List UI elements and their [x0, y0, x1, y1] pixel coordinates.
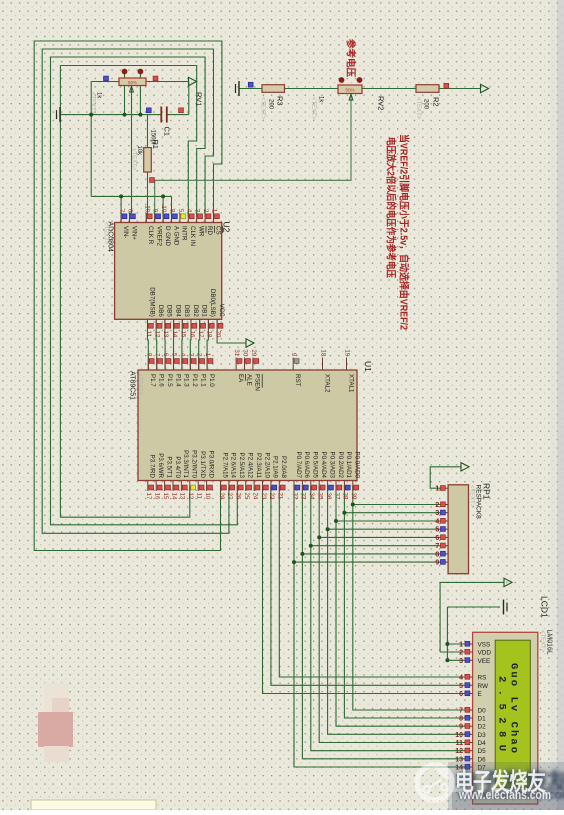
svg-text:50%: 50% [345, 88, 354, 93]
svg-text:P3.3/INT1: P3.3/INT1 [182, 450, 189, 478]
RP1 pin 6 [441, 536, 448, 538]
U1 pin 31 EA [235, 358, 237, 371]
svg-text:<TEXT>: <TEXT> [131, 148, 137, 171]
svg-text:4: 4 [435, 519, 439, 526]
svg-text:U1: U1 [363, 361, 373, 372]
IC U2 ADC0804 body [115, 223, 222, 320]
pink watermark blob bottom-left [38, 683, 73, 762]
svg-text:<TEXT>: <TEXT> [103, 222, 109, 245]
svg-text:D4: D4 [478, 740, 487, 747]
wire branch U1.32-RP1.9 [294, 561, 441, 563]
RP1 pin 1 [441, 487, 448, 489]
resistor R3 [262, 85, 285, 93]
U2 pin 17 DB1 [199, 319, 201, 329]
resistor R1 [144, 148, 152, 172]
svg-text:D1: D1 [478, 716, 487, 723]
U1 pin 5 P1.4 [173, 358, 175, 371]
svg-text:R3: R3 [276, 96, 285, 106]
wire to VIN- [120, 196, 122, 222]
U1 pin 7 P1.6 [156, 358, 158, 371]
U2 pin 20 VCC [216, 319, 218, 329]
LCD pin 8 D1 [464, 717, 473, 719]
svg-text:7: 7 [435, 543, 439, 550]
wire branch U1.38-RP1.3 [344, 512, 441, 514]
LCD pin 14 D7 [464, 766, 473, 768]
svg-text:www.elecfans.com: www.elecfans.com [458, 787, 551, 802]
wire U2.14-U1.5 [173, 319, 175, 370]
U1 pin 13 P3.3/INT1 [180, 481, 182, 492]
svg-text:5: 5 [459, 683, 463, 690]
wire RV1 left drop [90, 82, 92, 197]
svg-text:RV2: RV2 [377, 96, 386, 110]
svg-text:9: 9 [152, 209, 159, 213]
svg-text:DB0(LSB): DB0(LSB) [209, 289, 216, 317]
svg-text:36: 36 [325, 493, 332, 500]
U1 pin 27 P2.6/A14 [228, 481, 230, 492]
LCD pin 6 E [464, 693, 473, 695]
LCD pin 2 VDD [464, 651, 473, 653]
svg-text:200: 200 [423, 99, 429, 110]
U1 pin 39 P0.0/AD0 [352, 481, 354, 492]
svg-text:P3.0/RXD: P3.0/RXD [207, 450, 214, 478]
wire VDD riser [439, 582, 441, 652]
resistor pack RP1 RESPACK8 body [448, 485, 468, 574]
U1 pin 11 P3.1/TXD [197, 481, 199, 492]
svg-text:RD: RD [206, 226, 213, 235]
wire LCD VEE [447, 659, 463, 661]
svg-text:50%: 50% [128, 80, 137, 85]
svg-text:14: 14 [171, 331, 178, 338]
U2 pin 9 VREF2 [154, 213, 156, 223]
svg-text:WR: WR [198, 226, 205, 237]
wire data U1.35-LCD.11 [319, 486, 463, 743]
svg-text:16: 16 [154, 493, 161, 500]
svg-text:E: E [478, 691, 482, 698]
U1 pin 15 P3.5/T1 [164, 481, 166, 492]
svg-text:P0.5/AD5: P0.5/AD5 [312, 452, 319, 479]
svg-text:RST: RST [294, 374, 301, 387]
svg-text:RW: RW [478, 683, 489, 690]
U2 pin 12 DB6 [155, 319, 157, 329]
resistor R2 [416, 85, 439, 93]
node rail1-j3 [138, 113, 142, 117]
wire RV2 to R2 [362, 88, 416, 90]
ground GND3 [503, 600, 505, 615]
RP1 pin 7 [441, 545, 448, 547]
U1 pin 18 XTAL2 [322, 358, 324, 371]
svg-text:<TEXT>: <TEXT> [137, 373, 143, 396]
wire U2.17-U1.2 [199, 319, 200, 370]
RV1 wiper arrowhead [130, 86, 134, 92]
U2 pin 4 CLK IN [187, 213, 189, 223]
svg-text:8: 8 [435, 551, 439, 558]
svg-text:19: 19 [143, 205, 150, 212]
svg-text:2: 2 [202, 209, 209, 213]
node rail1-j1 [89, 113, 93, 117]
svg-text:RV1: RV1 [195, 92, 204, 106]
svg-text:3: 3 [187, 353, 194, 357]
svg-text:当VREF/2引脚电压小于2.5v，自动选择由VREF/2: 当VREF/2引脚电压小于2.5v，自动选择由VREF/2 [398, 134, 411, 330]
svg-text:CS: CS [214, 226, 221, 235]
U2 pin 14 DB4 [173, 319, 175, 329]
wire U2.11-U1.8 [147, 319, 150, 370]
svg-text:17: 17 [197, 331, 204, 338]
svg-text:12: 12 [455, 748, 463, 755]
svg-text:<TEXT>: <TEXT> [90, 92, 96, 115]
U2 pin 10 D GND [162, 213, 164, 223]
svg-text:P3.1/TXD: P3.1/TXD [199, 451, 206, 478]
svg-text:11: 11 [145, 331, 152, 338]
RP1 pin 3 [441, 512, 448, 514]
wire data U1.36-LCD.10 [328, 486, 464, 734]
svg-text:2: 2 [459, 650, 463, 657]
node j34 [309, 544, 313, 548]
svg-text:DB4: DB4 [174, 305, 181, 318]
svg-text:R2: R2 [432, 97, 441, 107]
svg-text:21: 21 [277, 493, 284, 500]
svg-text:20: 20 [214, 331, 221, 338]
svg-text:15: 15 [180, 331, 187, 338]
U1 pin 8 P1.7 [147, 358, 149, 371]
svg-text:P1.7: P1.7 [149, 374, 156, 387]
wire to D GND [162, 196, 164, 222]
svg-text:VDD: VDD [478, 650, 492, 657]
LCD pin 4 RS [464, 676, 473, 678]
svg-text:19: 19 [344, 349, 351, 356]
svg-text:P2.6/A14: P2.6/A14 [230, 453, 237, 479]
power arrow VCC1 [189, 77, 197, 85]
RP1 pin 8 [441, 553, 448, 555]
svg-text:RESPACK8: RESPACK8 [475, 485, 482, 520]
svg-text:24: 24 [251, 493, 258, 500]
node j36 [326, 527, 330, 531]
svg-text:6: 6 [459, 691, 463, 698]
LCD pin 1 VSS [464, 643, 473, 645]
svg-text:25: 25 [243, 493, 250, 500]
U1 pin 37 P0.2/AD2 [335, 481, 337, 492]
wire RV2 wiper to U2.9 [155, 94, 351, 223]
node j37 [334, 519, 338, 523]
U1 pin 19 XTAL1 [346, 358, 348, 371]
svg-text:8: 8 [169, 209, 176, 213]
svg-text:9: 9 [435, 560, 439, 567]
svg-text:12: 12 [154, 331, 161, 338]
wire loop D U2.4-U1.12 [60, 66, 196, 518]
U2 pin 3 WR [196, 213, 198, 223]
svg-text:<TEXT>: <TEXT> [310, 97, 316, 120]
svg-text:14: 14 [170, 493, 177, 500]
RV2 terminal dots [339, 77, 345, 83]
LCD pin 11 D4 [464, 742, 473, 744]
U1 pin 26 P2.5/A13 [236, 481, 238, 492]
wire VSS/VEE riser [446, 607, 448, 660]
svg-text:VCC: VCC [218, 304, 225, 318]
svg-text:P3.5/T1: P3.5/T1 [165, 456, 172, 478]
svg-text:<TEXT>: <TEXT> [469, 485, 475, 508]
svg-text:P2.1/A9: P2.1/A9 [272, 456, 279, 479]
svg-text:P3.7/RD: P3.7/RD [149, 455, 156, 479]
svg-text:P1.5: P1.5 [166, 374, 173, 387]
U1 pin 25 P2.4/A12 [245, 481, 247, 492]
svg-text:VEE: VEE [478, 658, 491, 665]
LCD pin 12 D5 [464, 750, 473, 752]
wire loop C U2.3-U1.26 [51, 57, 238, 525]
U2 pin 18 DB0(LSB) [207, 319, 209, 329]
svg-text:C1: C1 [163, 127, 172, 137]
svg-text:EA: EA [237, 374, 244, 383]
svg-text:35: 35 [317, 493, 324, 500]
svg-text:13: 13 [179, 493, 186, 500]
svg-text:DB6: DB6 [157, 305, 164, 318]
U2 pin 16 DB2 [190, 319, 192, 329]
svg-text:RS: RS [478, 675, 487, 682]
IC U1 AT89C51 body [138, 370, 357, 481]
node j39 [351, 503, 355, 507]
svg-text:23: 23 [260, 493, 267, 500]
svg-text:R1: R1 [151, 140, 160, 150]
svg-text:<TEXT>: <TEXT> [539, 630, 545, 653]
svg-text:1: 1 [459, 642, 463, 649]
svg-text:7: 7 [118, 209, 125, 213]
node rail2-j1 [119, 194, 123, 198]
svg-text:2: 2 [435, 502, 439, 509]
svg-text:P2.7/A15: P2.7/A15 [221, 453, 228, 479]
U1 pin 6 P1.5 [164, 358, 166, 371]
wire data U1.37-LCD.9 [336, 486, 464, 726]
svg-text:P3.4/T0: P3.4/T0 [174, 456, 181, 478]
wire RV1 wiper to VIN+ [131, 86, 133, 214]
LCD1 LM016L body [473, 632, 538, 804]
U1 pin 24 P2.3/A11 [253, 481, 255, 492]
ground GND1 [59, 107, 61, 122]
svg-text:27: 27 [226, 493, 233, 500]
U1 pin 2 P1.1 [198, 358, 200, 371]
svg-text:37: 37 [333, 493, 340, 500]
wire branch U1.35-RP1.6 [319, 536, 441, 538]
svg-text:3: 3 [459, 658, 463, 665]
svg-text:31: 31 [233, 349, 240, 356]
wire R1 top lead [147, 115, 149, 148]
wire U1.22-LCD.RW [271, 486, 464, 685]
U2 pin 8 A GND [171, 213, 173, 223]
svg-text:39: 39 [350, 493, 357, 500]
svg-text:38: 38 [342, 493, 349, 500]
U1 pin 17 P3.7/RD [147, 481, 149, 492]
wire R3 to RV2 [285, 88, 339, 90]
wire data U1.32-LCD.14 [294, 486, 464, 767]
node rail2-j2 [161, 194, 165, 198]
svg-text:VSS: VSS [478, 642, 491, 649]
svg-text:4: 4 [459, 675, 463, 682]
svg-text:4: 4 [179, 353, 186, 357]
RV1 terminal dots [122, 69, 128, 75]
wire RV1 right lead [146, 81, 189, 83]
svg-text:1: 1 [211, 209, 218, 213]
U1 pin 29 PSEN [252, 358, 254, 371]
wire R2 to arrow [439, 88, 481, 90]
U2 pin 11 DB7(MSB) [147, 319, 149, 329]
svg-text:P2.0/A8: P2.0/A8 [280, 456, 287, 479]
U1 pin 33 P0.6/AD6 [301, 481, 303, 492]
wire to ground [447, 606, 500, 608]
ground GND2 [238, 81, 240, 96]
svg-text:32: 32 [291, 493, 298, 500]
svg-text:DB7(MSB): DB7(MSB) [148, 287, 155, 317]
node jVSS [445, 642, 449, 646]
svg-text:INTR: INTR [181, 226, 188, 241]
svg-text:AT89C51: AT89C51 [129, 371, 136, 400]
svg-text:P2.5/A13: P2.5/A13 [238, 453, 245, 479]
wire drop to C1 [188, 82, 190, 115]
svg-text:D3: D3 [478, 732, 487, 739]
svg-text:13: 13 [162, 331, 169, 338]
capacitor C1 [160, 107, 162, 123]
U1 pin 10 P3.0/RXD [206, 481, 208, 492]
svg-text:26: 26 [235, 493, 242, 500]
wire rail1 left [60, 114, 161, 116]
wire R1 bottom lead [147, 172, 149, 214]
U1 pin 32 P0.7/AD7 [293, 481, 295, 492]
svg-text:1: 1 [435, 486, 439, 493]
potentiometer RV2 [338, 85, 362, 94]
U2 pin 13 DB5 [164, 319, 166, 329]
watermark backdrop tint [448, 762, 564, 810]
wire VDD to arrow [440, 581, 504, 583]
wire U2.12-U1.7 [155, 319, 158, 370]
wire data U1.38-LCD.8 [344, 486, 463, 718]
svg-text:D2: D2 [478, 724, 487, 731]
wire rail2 [91, 195, 171, 197]
wire RV1 t1 drop [124, 74, 126, 115]
right edge strip [557, 0, 564, 810]
svg-text:P0.7/AD7: P0.7/AD7 [295, 452, 302, 479]
pale yellow box at bottom edge [31, 800, 156, 810]
svg-text:参考电压: 参考电压 [345, 38, 357, 77]
wire branch U1.33-RP1.8 [302, 553, 441, 555]
wire LCD VSS [447, 643, 463, 645]
svg-text:34: 34 [308, 493, 315, 500]
svg-text:17: 17 [145, 493, 152, 500]
U2 pin 2 RD [204, 213, 206, 223]
power arrow VCC3 [246, 339, 254, 347]
svg-text:6: 6 [435, 535, 439, 542]
U1 pin 16 P3.6/WR [155, 481, 157, 492]
U1 pin 14 P3.4/T0 [172, 481, 174, 492]
power arrow VCC2 [481, 84, 489, 92]
svg-text:33: 33 [300, 493, 307, 500]
svg-text:VIN+: VIN+ [130, 226, 137, 240]
LCD pin 9 D2 [464, 725, 473, 727]
svg-text:16: 16 [188, 331, 195, 338]
svg-text:<TEXT>: <TEXT> [415, 97, 421, 120]
svg-text:29: 29 [250, 349, 257, 356]
U1 pin 3 P1.2 [189, 358, 191, 371]
LCD pin 13 D6 [464, 758, 473, 760]
wire U2.13-U1.6 [164, 319, 166, 370]
svg-text:P0.4/AD4: P0.4/AD4 [320, 452, 327, 479]
wire branch U1.34-RP1.7 [311, 545, 441, 547]
svg-text:P0.3/AD3: P0.3/AD3 [328, 452, 335, 479]
U2 pin 15 DB3 [181, 319, 183, 329]
node jVEE [445, 658, 449, 662]
svg-text:1k: 1k [318, 96, 324, 103]
U1 pin 21 P2.0/A8 [278, 481, 280, 492]
svg-text:D0: D0 [478, 708, 487, 715]
svg-text:11: 11 [456, 740, 464, 747]
node j38 [342, 511, 346, 515]
svg-text:D5: D5 [478, 748, 487, 755]
svg-text:P1.6: P1.6 [158, 374, 165, 387]
wire C1 right lead [167, 114, 189, 116]
RP1 pin 2 [441, 504, 448, 506]
U2 pin 1 CS [213, 213, 215, 223]
U1 pin 12 P3.2/INT0 [189, 481, 191, 492]
svg-text:DB5: DB5 [166, 305, 173, 318]
svg-text:XTAL2: XTAL2 [323, 374, 330, 393]
node j35 [317, 535, 321, 539]
wire U1.21-LCD.RS [279, 486, 463, 677]
U1 pin 4 P1.3 [181, 358, 183, 371]
svg-text:5: 5 [171, 353, 178, 357]
svg-text:DB1: DB1 [201, 305, 208, 318]
svg-text:5: 5 [177, 209, 184, 213]
wire to A GND [171, 196, 173, 222]
svg-text:P0.6/AD6: P0.6/AD6 [303, 452, 310, 479]
svg-text:DB2: DB2 [192, 305, 199, 318]
U2 pin 7 VIN- [120, 213, 122, 223]
U1 pin 36 P0.3/AD3 [327, 481, 329, 492]
svg-text:10: 10 [204, 493, 211, 500]
U1 pin 22 P2.1/A9 [270, 481, 272, 492]
wire loop B U2.2-U1.27 [42, 49, 229, 533]
svg-text:P1.1: P1.1 [200, 374, 207, 387]
svg-text:ALE: ALE [245, 374, 252, 386]
wire loop A U2.1-U1.28 [34, 41, 222, 551]
RP1 pin 5 [441, 528, 448, 530]
svg-text:P2.2/A10: P2.2/A10 [263, 453, 270, 479]
wire data U1.34-LCD.12 [311, 486, 464, 751]
U2 pin 5 INTR [179, 213, 181, 223]
svg-text:P0.1/AD1: P0.1/AD1 [345, 452, 352, 479]
svg-text:7: 7 [154, 353, 161, 357]
wire branch U1.37-RP1.4 [336, 520, 441, 522]
svg-text:3: 3 [435, 510, 439, 517]
wire data U1.33-LCD.13 [302, 486, 463, 759]
wire U2.20 VCC [217, 319, 246, 343]
U2 pin 19 CLK R [145, 213, 147, 223]
svg-text:22: 22 [268, 493, 275, 500]
svg-text:15: 15 [162, 493, 169, 500]
wire branch U1.36-RP1.5 [328, 528, 442, 530]
svg-text:VIN-: VIN- [122, 226, 129, 238]
svg-text:10: 10 [455, 732, 463, 739]
svg-text:CLK R: CLK R [147, 226, 154, 245]
wire RP1.1 VCC [430, 467, 461, 488]
U2 pin 6 VIN+ [129, 213, 131, 223]
svg-text:28: 28 [218, 493, 225, 500]
svg-text:200: 200 [268, 99, 274, 110]
svg-text:P2.3/A11: P2.3/A11 [255, 453, 262, 479]
svg-text:Guo Lv Chao: Guo Lv Chao [508, 663, 520, 753]
svg-text:1: 1 [204, 353, 211, 357]
U1 pin 1 P1.0 [206, 358, 208, 371]
svg-text:5: 5 [435, 527, 439, 534]
svg-text:4: 4 [185, 209, 192, 213]
svg-text:CLK IN: CLK IN [189, 226, 196, 246]
svg-text:8: 8 [145, 353, 152, 357]
U1 pin 34 P0.5/AD5 [310, 481, 312, 492]
svg-text:3: 3 [194, 209, 201, 213]
